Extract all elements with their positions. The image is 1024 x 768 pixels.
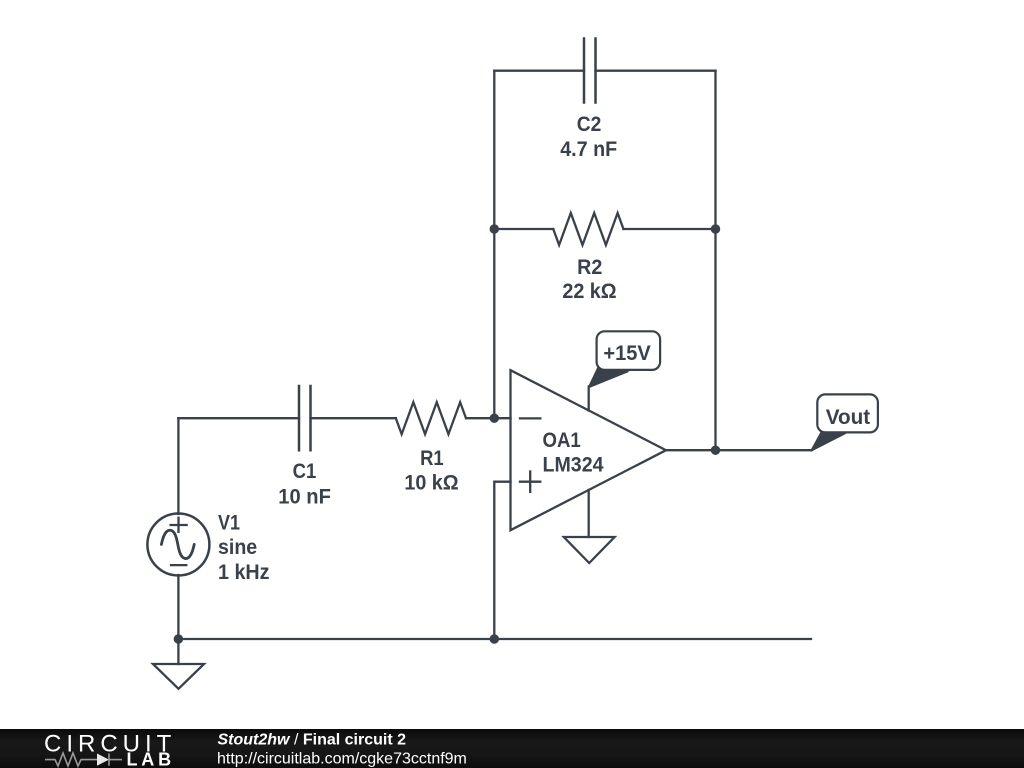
svg-text:4.7 nF: 4.7 nF <box>560 138 617 161</box>
svg-text:22 kΩ: 22 kΩ <box>562 280 616 303</box>
wire V1 bottom vertical <box>177 575 179 639</box>
svg-text:R2: R2 <box>577 256 602 279</box>
wire V1 top vertical <box>177 418 179 514</box>
svg-text:1 kHz: 1 kHz <box>218 561 270 584</box>
svg-text:C1: C1 <box>293 460 317 483</box>
node junction dot V1 ground <box>174 634 184 644</box>
node junction dot R2 left <box>490 224 500 234</box>
voltage source V1 circle <box>147 514 209 576</box>
svg-text:C2: C2 <box>577 113 602 136</box>
V1 minus sign <box>171 564 186 566</box>
op-amp plus sign <box>520 472 540 492</box>
wire output <box>666 449 811 451</box>
svg-text:LAB: LAB <box>127 750 175 768</box>
wire op-amp ground pin <box>588 490 590 537</box>
wire R2 right lead <box>623 228 715 230</box>
svg-text:V1: V1 <box>218 512 240 535</box>
svg-text:R1: R1 <box>420 447 444 470</box>
svg-text:10 nF: 10 nF <box>278 485 331 508</box>
wire input left horizontal (V1 to C1) <box>178 417 299 419</box>
wire right feedback vertical <box>714 71 716 451</box>
resistor R1 zigzag <box>396 402 466 434</box>
node junction dot R2 right <box>711 224 721 234</box>
svg-text:10 kΩ: 10 kΩ <box>404 472 458 495</box>
svg-text:sine: sine <box>218 536 257 559</box>
wire R2 left lead <box>494 228 553 230</box>
footer bar <box>0 729 1024 768</box>
wire non-inverting input bend <box>494 482 510 639</box>
node junction dot output <box>711 445 721 455</box>
wire C2 left lead <box>494 70 584 72</box>
wire C2 right lead <box>596 70 716 72</box>
svg-text:http://circuitlab.com/cgke73cc: http://circuitlab.com/cgke73cctnf9m <box>217 751 467 768</box>
V1 plus sign <box>171 518 187 532</box>
resistor R2 zigzag <box>553 213 623 245</box>
op-amp minus sign <box>520 417 540 419</box>
node junction dot R1/inverting input <box>490 413 500 423</box>
svg-text:+15V: +15V <box>603 342 650 365</box>
wire C1 to R1 <box>311 417 396 419</box>
wire op-amp power pin <box>588 387 590 411</box>
ground symbol V1 <box>153 664 204 689</box>
node junction dot non-inverting ground <box>490 634 500 644</box>
wire V1 ground stub <box>177 639 179 664</box>
svg-text:Vout: Vout <box>826 406 870 429</box>
svg-text:Stout2hw / Final circuit 2: Stout2hw / Final circuit 2 <box>218 731 407 748</box>
wire top-left feedback vertical (node B to C2 row) <box>493 71 495 419</box>
V1 sine symbol <box>161 530 194 558</box>
op-amp OA1 triangle <box>511 370 667 530</box>
capacitor C2 plates <box>584 39 596 103</box>
capacitor C1 plates <box>299 386 311 450</box>
svg-text:LM324: LM324 <box>543 454 604 477</box>
net flag +15V <box>589 331 661 387</box>
wire ground rail bottom <box>178 638 811 640</box>
svg-text:OA1: OA1 <box>543 429 581 452</box>
ground symbol op-amp <box>564 537 615 563</box>
wire R1 to op-amp inverting input <box>466 417 511 419</box>
net flag Vout <box>811 394 878 451</box>
logo resistor-diode squiggle <box>45 753 122 766</box>
